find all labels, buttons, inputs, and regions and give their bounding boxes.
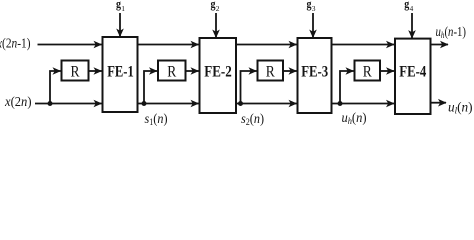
svg-text:x(2n): x(2n) (4, 94, 31, 109)
wire g3 arrow into FE-3 (312, 13, 314, 38)
svg-text:x(2n-1): x(2n-1) (0, 36, 31, 51)
svg-text:4: 4 (410, 4, 414, 13)
wire FE-4 top output (431, 44, 449, 46)
block FE-1 (103, 37, 138, 112)
wire FE-3 to FE-4 bottom uh(n) (332, 103, 395, 105)
svg-text:R: R (71, 64, 81, 81)
node junction dot 4 (338, 101, 343, 106)
node junction dot 3 (238, 101, 243, 106)
wire x(2n) to FE-1 (35, 103, 102, 105)
block FE-4 (395, 39, 431, 114)
wire FE-1 to FE-2 bottom s1(n) (138, 103, 199, 105)
svg-text:FE-4: FE-4 (399, 64, 426, 81)
wire g2 arrow into FE-2 (215, 13, 217, 38)
wire branch 2 up to R2 (144, 71, 157, 104)
block FE-3 (298, 38, 332, 113)
block FE-2 (200, 38, 237, 113)
svg-text:FE-3: FE-3 (301, 64, 328, 81)
svg-text:s2(n): s2(n) (241, 111, 264, 127)
register R2 (158, 61, 186, 81)
node junction dot 2 (142, 101, 147, 106)
wire R1 to FE-1 (89, 70, 102, 72)
svg-text:2: 2 (216, 4, 220, 13)
register R4 (355, 61, 381, 81)
svg-text:uh(n): uh(n) (342, 110, 367, 126)
wire branch 1 up to R1 (50, 71, 61, 104)
wire branch 4 up to R4 (340, 71, 354, 104)
wire branch 3 up to R3 (241, 71, 257, 104)
svg-text:R: R (363, 64, 373, 81)
wire g1 arrow into FE-1 (119, 13, 121, 37)
svg-text:R: R (167, 64, 177, 81)
wire FE-1 to FE-2 top (138, 44, 199, 46)
node junction dot 1 (48, 101, 53, 106)
register R3 (258, 61, 284, 81)
wire R2 to FE-2 (186, 70, 199, 72)
svg-text:FE-1: FE-1 (107, 64, 134, 81)
svg-text:uh(n-1): uh(n-1) (436, 24, 467, 40)
svg-text:ul(n): ul(n) (448, 100, 473, 116)
wire g4 arrow into FE-4 (411, 13, 413, 38)
wire R3 to FE-3 (283, 70, 297, 72)
wire R4 to FE-4 (380, 70, 394, 72)
wire FE-2 to FE-3 bottom s2(n) (236, 103, 297, 105)
svg-text:R: R (266, 64, 276, 81)
svg-text:FE-2: FE-2 (204, 64, 232, 81)
wire x(2n-1) to FE-1 (38, 44, 102, 46)
svg-text:1: 1 (121, 4, 125, 13)
wire FE-4 bottom output (431, 102, 447, 104)
register R1 (62, 61, 89, 81)
wire FE-2 to FE-3 top (236, 44, 297, 46)
svg-text:3: 3 (312, 4, 316, 13)
wire FE-3 to FE-4 top (332, 44, 395, 46)
svg-text:s1(n): s1(n) (145, 111, 168, 127)
